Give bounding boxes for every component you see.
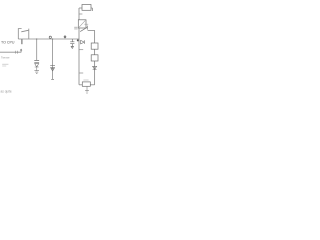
capacitor C2: [50, 65, 55, 67]
pin stub 2: [79, 49, 83, 51]
junction dot E: [36, 38, 37, 39]
capacitor C3: [70, 39, 74, 48]
junction dot F: [52, 38, 53, 39]
wire to right rail: [88, 30, 95, 32]
transistor Q1: [81, 40, 85, 44]
fuse ticks: [15, 51, 17, 54]
resistor R2: [91, 43, 98, 49]
node stub A: [21, 39, 23, 44]
capacitor C1: [34, 60, 39, 62]
bottom wire: [79, 84, 95, 86]
terminal end: [51, 78, 54, 80]
label D3: [84, 23, 88, 25]
right rail: [94, 30, 96, 85]
diode D2: [51, 68, 54, 71]
pin stub 1: [79, 13, 82, 15]
svg-text:Tsense: Tsense: [1, 56, 10, 60]
wire main vertical: [52, 39, 54, 79]
switch S1: [18, 28, 29, 39]
resistor R3: [91, 55, 98, 61]
wire left stub: [0, 51, 21, 53]
ground stub: [86, 86, 88, 90]
top wire: [79, 8, 92, 11]
resistor R4: [82, 82, 90, 86]
arrow head: [20, 49, 22, 52]
left rail: [78, 8, 80, 85]
label R4 value: [83, 79, 88, 81]
relay K1 box: [78, 20, 86, 28]
label dashes: [2, 64, 8, 66]
diode D1: [35, 64, 39, 67]
diode D3 diagonal: [80, 26, 87, 32]
wire branch Z1 vertical: [36, 39, 38, 60]
ground G1: [34, 71, 39, 74]
node loop B: [49, 36, 51, 38]
relay K1 diagonal: [79, 21, 85, 28]
pin stub 3: [79, 72, 83, 74]
wire main horizontal: [18, 38, 79, 40]
node C plus: [64, 36, 66, 39]
diode D4: [93, 66, 97, 69]
capacitor C4 plates: [74, 27, 77, 29]
svg-text:TO CPU: TO CPU: [1, 41, 15, 45]
resistor R1: [82, 5, 91, 11]
svg-text:as quite: as quite: [1, 89, 12, 93]
junction dot D: [77, 39, 79, 41]
ground G2: [85, 91, 89, 94]
wire: [36, 67, 38, 70]
